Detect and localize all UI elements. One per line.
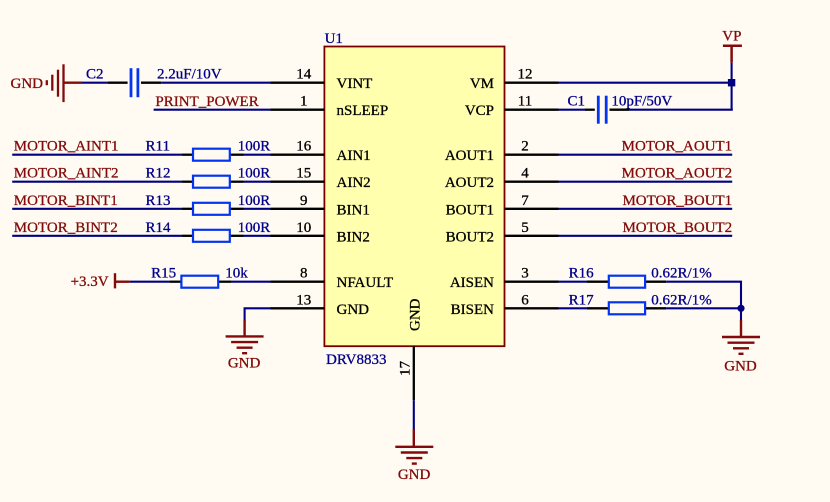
svg-text:100R: 100R — [238, 166, 271, 182]
svg-text:AOUT1: AOUT1 — [445, 148, 494, 164]
resistor R15 — [170, 276, 231, 288]
svg-text:7: 7 — [521, 193, 529, 209]
pin 17 stub — [413, 346, 415, 400]
junction VM/VP — [728, 79, 735, 86]
wire ground lead bottom (dark red) — [413, 429, 415, 447]
svg-text:MOTOR_AINT1: MOTOR_AINT1 — [14, 139, 119, 155]
wire R11 to pin 16 — [244, 154, 271, 156]
svg-text:BIN2: BIN2 — [337, 229, 370, 245]
svg-text:R12: R12 — [146, 166, 171, 182]
svg-text:10: 10 — [296, 220, 311, 236]
power port VP — [723, 46, 742, 63]
svg-text:GND: GND — [337, 302, 370, 318]
pin 6 stub — [505, 307, 559, 309]
junction R16/R17 — [737, 305, 744, 312]
svg-text:9: 9 — [300, 193, 308, 209]
wire R12 to pin 15 — [244, 181, 271, 183]
svg-text:8: 8 — [300, 266, 308, 282]
svg-text:15: 15 — [296, 166, 311, 182]
svg-text:VP: VP — [722, 29, 741, 45]
svg-text:100R: 100R — [238, 220, 271, 236]
svg-text:PRINT_POWER: PRINT_POWER — [155, 94, 258, 110]
svg-text:VM: VM — [470, 76, 494, 92]
capacitor C2 — [108, 68, 161, 97]
power port +3.3V — [115, 273, 129, 288]
svg-text:MOTOR_BINT1: MOTOR_BINT1 — [14, 193, 118, 209]
svg-text:100R: 100R — [238, 139, 271, 155]
wire R13 to pin 9 — [244, 208, 271, 210]
svg-text:nSLEEP: nSLEEP — [337, 103, 389, 119]
wire MOTOR_BINT1 to R13 — [12, 208, 182, 210]
svg-text:AIN2: AIN2 — [337, 175, 371, 191]
svg-text:MOTOR_AINT2: MOTOR_AINT2 — [14, 166, 119, 182]
pin 2 stub — [505, 154, 559, 156]
svg-text:MOTOR_AOUT1: MOTOR_AOUT1 — [622, 139, 733, 155]
resistor R12 — [182, 176, 244, 188]
resistor R16 — [587, 276, 666, 288]
pin 1 stub — [271, 109, 325, 111]
svg-text:R17: R17 — [569, 292, 595, 308]
svg-text:R14: R14 — [146, 220, 172, 236]
wire MOTOR_AINT1 to R11 — [12, 154, 182, 156]
svg-text:AIN1: AIN1 — [337, 148, 371, 164]
wire ground lead right (dark red) — [740, 320, 742, 337]
svg-text:BOUT1: BOUT1 — [446, 202, 494, 218]
svg-text:2: 2 — [521, 139, 529, 155]
wire pin 12 (VM) to VP — [559, 82, 732, 84]
pin 9 stub — [271, 208, 325, 210]
svg-text:10k: 10k — [225, 266, 248, 282]
svg-text:3: 3 — [521, 266, 529, 282]
svg-text:MOTOR_AOUT2: MOTOR_AOUT2 — [622, 166, 733, 182]
wire R15 to pin 8 — [231, 281, 271, 283]
ground GND (pin 13) — [226, 336, 264, 353]
svg-text:AOUT2: AOUT2 — [445, 175, 494, 191]
wire R17 to junction — [666, 307, 741, 309]
svg-text:MOTOR_BOUT2: MOTOR_BOUT2 — [622, 220, 732, 236]
wire pin 7 to MOTOR_BOUT1 — [559, 208, 733, 210]
wire ground lead (dark red) — [243, 320, 245, 336]
svg-text:R16: R16 — [569, 266, 595, 282]
svg-text:2.2uF/10V: 2.2uF/10V — [157, 67, 222, 83]
svg-text:17: 17 — [398, 361, 414, 377]
wire +3.3V to R15 — [129, 281, 170, 283]
wire junction down — [740, 308, 742, 321]
pin 7 stub — [505, 208, 559, 210]
svg-text:+3.3V: +3.3V — [71, 274, 109, 290]
svg-text:C1: C1 — [568, 94, 586, 110]
ground GND (right) — [722, 337, 760, 354]
pin 5 stub — [505, 235, 559, 237]
resistor R11 — [182, 149, 244, 161]
wire PRINT_POWER to pin 1 — [154, 109, 271, 111]
wire pin 6 to R17 — [559, 307, 588, 309]
svg-text:GND: GND — [724, 358, 757, 374]
svg-text:NFAULT: NFAULT — [337, 275, 394, 291]
wire C1 to VP vertical — [629, 109, 732, 111]
svg-text:DRV8833: DRV8833 — [326, 352, 386, 368]
svg-text:C2: C2 — [86, 67, 104, 83]
pin 14 stub — [271, 82, 325, 84]
svg-text:GND: GND — [11, 76, 44, 92]
svg-text:6: 6 — [521, 292, 529, 308]
svg-text:BOUT2: BOUT2 — [446, 229, 494, 245]
wire MOTOR_BINT2 to R14 — [12, 235, 182, 237]
wire pin 17 navy segment — [413, 400, 415, 430]
svg-text:10pF/50V: 10pF/50V — [611, 94, 672, 110]
pin 3 stub — [505, 281, 559, 283]
svg-text:BIN1: BIN1 — [337, 202, 370, 218]
wire pin 4 to MOTOR_AOUT2 — [559, 181, 733, 183]
resistor R13 — [182, 203, 244, 215]
svg-text:11: 11 — [518, 94, 532, 110]
svg-text:12: 12 — [518, 67, 533, 83]
svg-text:BISEN: BISEN — [451, 302, 495, 318]
svg-text:13: 13 — [296, 292, 311, 308]
ground power port GND left of C2 — [47, 64, 82, 102]
resistor R17 — [587, 302, 666, 314]
svg-text:MOTOR_BOUT1: MOTOR_BOUT1 — [622, 193, 732, 209]
pin 13 stub — [271, 307, 325, 309]
svg-text:VCP: VCP — [465, 103, 494, 119]
wire R14 to pin 10 — [244, 235, 271, 237]
wire pin 2 to MOTOR_AOUT1 — [559, 154, 733, 156]
svg-text:0.62R/1%: 0.62R/1% — [651, 292, 711, 308]
pin 15 stub — [271, 181, 325, 183]
wire pin 11 (VCP) to C1 — [559, 109, 586, 111]
wire GND to C2 — [82, 82, 108, 84]
svg-text:100R: 100R — [238, 193, 271, 209]
svg-text:R11: R11 — [146, 139, 170, 155]
wire pin 13 to ground — [245, 308, 271, 321]
ground GND (pin 17) — [395, 447, 433, 464]
wire MOTOR_AINT2 to R12 — [12, 181, 182, 183]
svg-text:MOTOR_BINT2: MOTOR_BINT2 — [14, 220, 118, 236]
wire C2 to pin 14 — [161, 82, 270, 84]
op-amp U1 — [324, 47, 504, 347]
wire VP vertical — [731, 63, 733, 110]
wire R16 to corner — [666, 282, 741, 309]
wire pin 3 to R16 — [559, 281, 588, 283]
resistor R14 — [182, 230, 244, 242]
capacitor C1 — [585, 96, 629, 124]
svg-text:AISEN: AISEN — [450, 275, 494, 291]
svg-text:U1: U1 — [325, 31, 343, 47]
svg-text:4: 4 — [521, 166, 529, 182]
svg-text:1: 1 — [300, 94, 308, 110]
svg-text:R15: R15 — [151, 266, 176, 282]
svg-text:GND: GND — [408, 298, 424, 331]
pin 4 stub — [505, 181, 559, 183]
pin 10 stub — [271, 235, 325, 237]
svg-text:GND: GND — [398, 467, 431, 483]
svg-text:VINT: VINT — [337, 76, 373, 92]
svg-text:R13: R13 — [146, 193, 171, 209]
pin 16 stub — [271, 154, 325, 156]
svg-text:5: 5 — [521, 220, 529, 236]
pin 8 stub — [271, 281, 325, 283]
pin 12 stub — [505, 82, 559, 84]
svg-text:GND: GND — [228, 355, 261, 371]
svg-text:16: 16 — [296, 139, 312, 155]
pin 11 stub — [505, 109, 559, 111]
svg-text:14: 14 — [296, 67, 312, 83]
wire pin 5 to MOTOR_BOUT2 — [559, 235, 733, 237]
svg-text:0.62R/1%: 0.62R/1% — [651, 266, 711, 282]
